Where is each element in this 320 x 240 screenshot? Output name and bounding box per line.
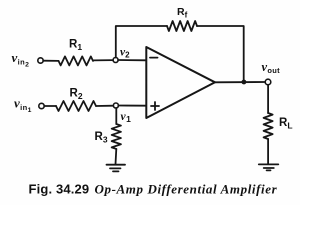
ground bbox=[259, 164, 279, 170]
svg-text:Rf: Rf bbox=[177, 6, 188, 19]
resistor R1 bbox=[59, 56, 93, 65]
wire bbox=[116, 26, 167, 58]
svg-text:Fig. 34.29: Fig. 34.29 bbox=[29, 182, 90, 197]
terminal vin1 bbox=[39, 103, 44, 108]
node v2 bbox=[113, 58, 118, 63]
resistor Rf bbox=[167, 21, 197, 31]
wire bbox=[44, 105, 56, 107]
svg-text:vin1: vin1 bbox=[14, 96, 32, 115]
wire bbox=[115, 108, 117, 124]
svg-text:v2: v2 bbox=[120, 47, 130, 60]
wire bbox=[267, 85, 269, 113]
terminal vin2 bbox=[38, 58, 43, 63]
wire bbox=[93, 59, 113, 61]
resistor R3 bbox=[112, 124, 121, 149]
svg-text:RL: RL bbox=[279, 117, 293, 131]
wire bbox=[267, 139, 269, 164]
svg-text:v1: v1 bbox=[121, 111, 132, 124]
svg-text:Op-Amp Differential Amplifier: Op-Amp Differential Amplifier bbox=[95, 182, 278, 197]
svg-text:R2: R2 bbox=[70, 88, 83, 102]
svg-text:vout: vout bbox=[262, 60, 281, 75]
wire bbox=[118, 105, 146, 107]
ground bbox=[107, 165, 126, 172]
svg-text:R1: R1 bbox=[69, 39, 82, 53]
junction bbox=[242, 80, 247, 85]
op-amp U1 bbox=[146, 47, 215, 118]
svg-text:R3: R3 bbox=[95, 131, 108, 145]
resistor RL bbox=[264, 113, 273, 139]
node v1 bbox=[113, 103, 118, 108]
wire bbox=[43, 60, 58, 62]
wire bbox=[96, 105, 113, 107]
terminal vout bbox=[265, 79, 271, 85]
resistor R2 bbox=[56, 101, 96, 111]
wire bbox=[197, 26, 244, 80]
svg-text:vin2: vin2 bbox=[12, 50, 30, 69]
wire bbox=[115, 149, 118, 164]
wire bbox=[215, 81, 265, 83]
wire bbox=[118, 59, 146, 61]
